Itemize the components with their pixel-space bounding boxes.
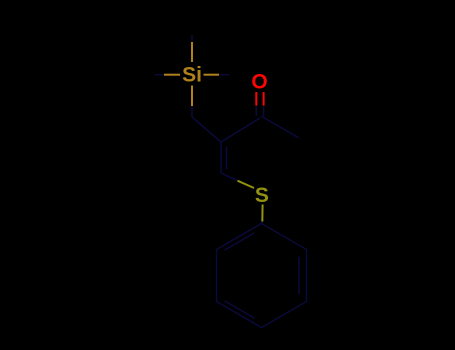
wire: Si left methyl bond outer half <box>155 74 164 76</box>
wire: vinyl C to S bond olive half <box>238 181 255 188</box>
wire: Si right methyl bond inner half <box>204 74 220 76</box>
wire: C=C double bond main line <box>220 142 222 173</box>
wire: C=O double bond right line red half <box>263 92 265 106</box>
wire: C3 to carbonyl C bond <box>221 118 260 142</box>
wire: vinyl C to S bond dark half <box>221 173 238 181</box>
wire: Si left methyl bond inner half <box>164 74 180 76</box>
wire: C=O double bond right line dark half <box>263 106 265 117</box>
wire: C=C double bond second line <box>226 147 228 170</box>
benzene inner double bond bottom edge <box>225 301 255 318</box>
wire: Si to CH2 bond lower half <box>191 106 193 117</box>
wire: Si top methyl bond outer half <box>191 35 193 42</box>
svg-text:Si: Si <box>182 63 202 86</box>
svg-text:O: O <box>251 71 267 94</box>
wire: Si to CH2 bond upper half <box>191 86 193 107</box>
svg-text:S: S <box>255 184 269 207</box>
benzene inner double bond right edge <box>298 257 300 295</box>
benzene ring outline <box>217 224 307 328</box>
wire: Si top methyl bond inner half <box>191 42 193 62</box>
wire: C=O double bond left line dark half <box>255 106 257 117</box>
wire: C=O double bond left line red half <box>255 92 257 106</box>
wire: S to phenyl bond dark half <box>261 222 264 224</box>
benzene inner double bond top-left edge <box>225 233 255 250</box>
wire: S to phenyl bond olive half <box>261 205 263 222</box>
wire: carbonyl C to methyl bond <box>261 116 299 138</box>
wire: Si right methyl bond outer half <box>219 74 229 76</box>
wire: CH2 to C3 bond <box>192 117 221 142</box>
